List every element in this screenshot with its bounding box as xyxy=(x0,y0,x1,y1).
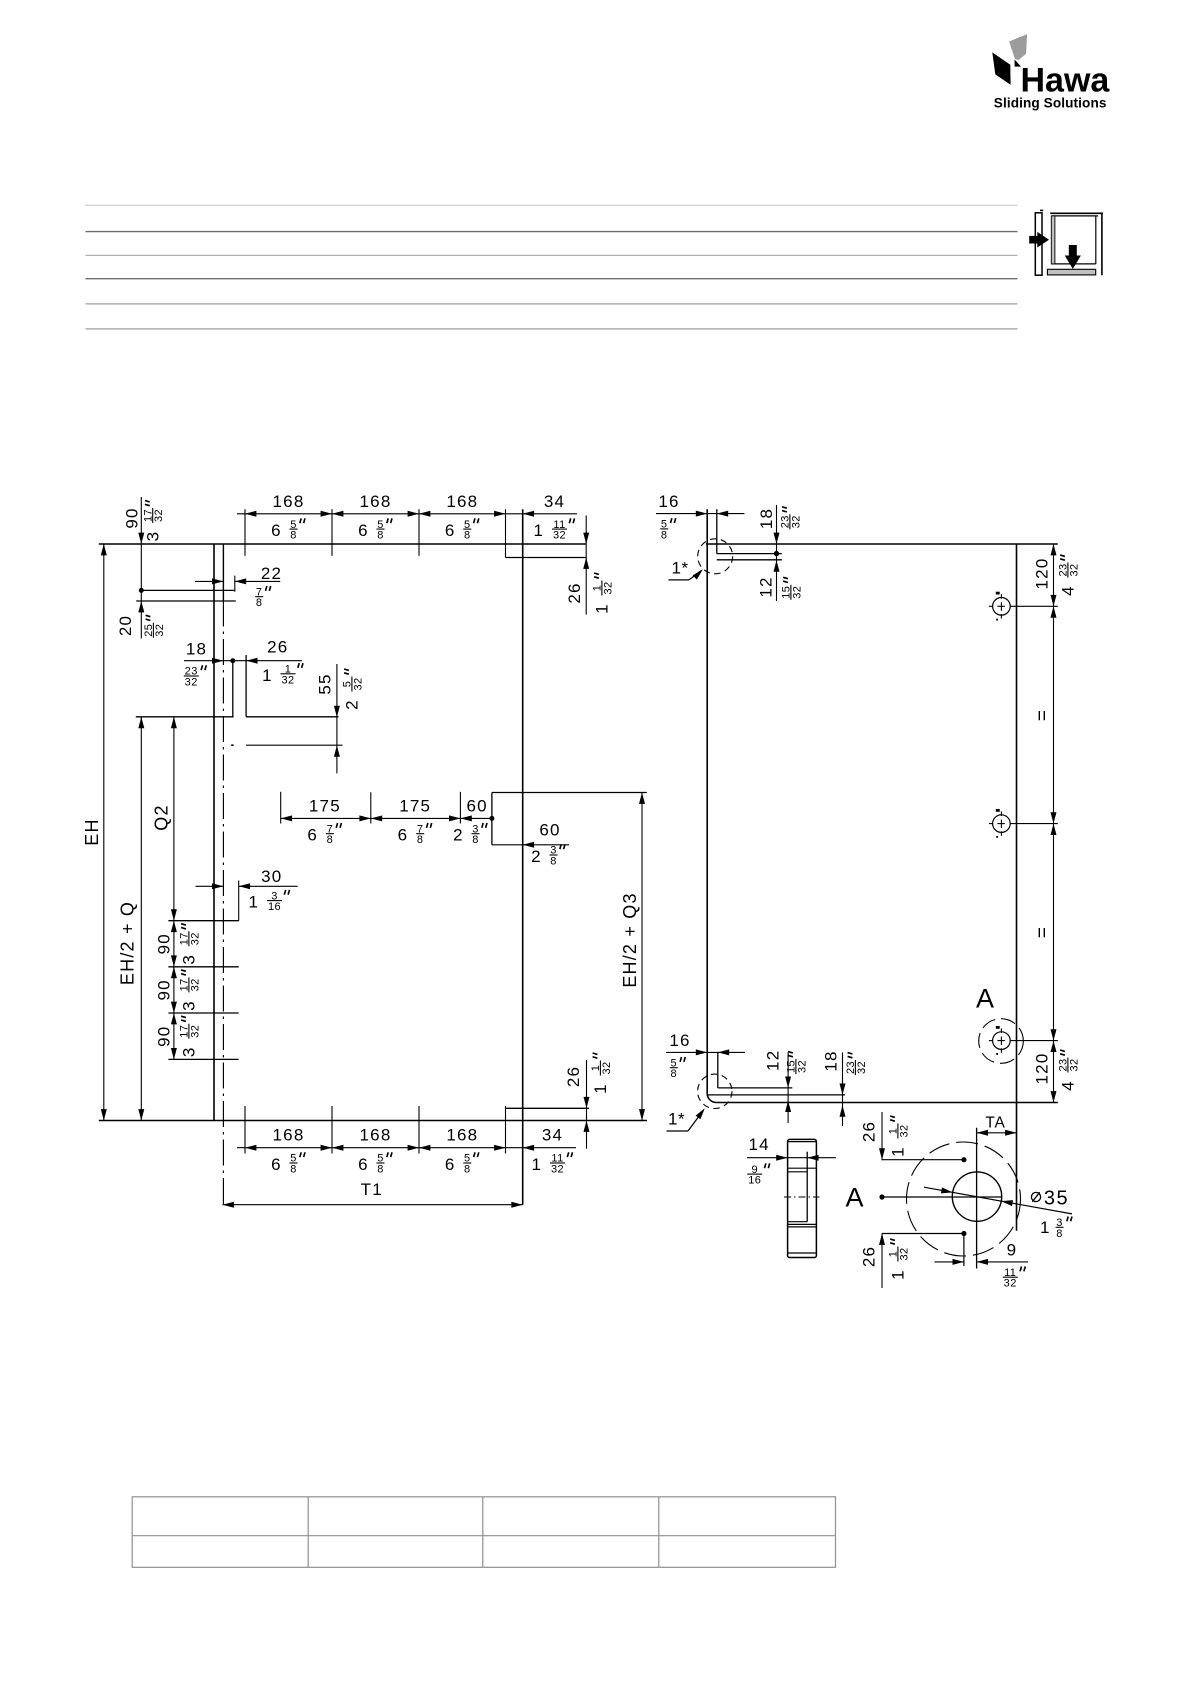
svg-text:1: 1 xyxy=(533,521,542,540)
profile outer body xyxy=(788,1139,817,1257)
svg-text:18: 18 xyxy=(186,639,207,658)
header rule line 6 xyxy=(86,328,1018,330)
svg-text:34: 34 xyxy=(542,1126,563,1145)
svg-text:32: 32 xyxy=(796,1060,808,1073)
dim 60 notch xyxy=(523,821,565,868)
header rule line 5 xyxy=(86,303,1018,305)
left bottom dim line xyxy=(237,1147,576,1149)
svg-text:32: 32 xyxy=(790,515,802,528)
svg-text:8: 8 xyxy=(327,834,334,846)
svg-text:32: 32 xyxy=(601,1061,613,1074)
svg-text:90: 90 xyxy=(155,979,174,1000)
left bottom dim ticks xyxy=(245,1106,506,1154)
dim 16 top xyxy=(656,492,745,541)
svg-text:168: 168 xyxy=(446,492,478,511)
hinge hole 1 xyxy=(989,592,1058,621)
svg-text:32: 32 xyxy=(1068,1058,1080,1071)
icon door leaf xyxy=(1035,210,1043,275)
dim 14 xyxy=(747,1135,836,1186)
svg-text:8: 8 xyxy=(671,1068,678,1080)
svg-text:32: 32 xyxy=(898,1247,910,1260)
svg-text:6: 6 xyxy=(358,521,367,540)
dim 168 bottom 3 xyxy=(445,1126,479,1176)
top corner inner edge xyxy=(716,509,718,553)
svg-text:120: 120 xyxy=(1033,1053,1052,1085)
svg-text:6: 6 xyxy=(358,1155,367,1174)
header rule line 2 xyxy=(86,231,1018,233)
svg-text:55: 55 xyxy=(316,673,335,694)
label 1* top xyxy=(669,559,705,580)
dim 20 top-left xyxy=(116,601,166,638)
left panel bottom edge xyxy=(99,1120,647,1122)
svg-text:168: 168 xyxy=(360,1126,392,1145)
profile hline 2 xyxy=(788,1171,808,1173)
profile line bottom-right xyxy=(506,1107,590,1109)
dim 12 top xyxy=(757,560,804,600)
screw line 2 xyxy=(168,1012,238,1014)
svg-text:6: 6 xyxy=(271,521,280,540)
logo wordmark Hawa xyxy=(1021,62,1111,100)
svg-text:8: 8 xyxy=(464,1164,471,1176)
svg-text:3: 3 xyxy=(180,955,199,964)
track line bottom 2 xyxy=(708,1094,846,1096)
svg-text:32: 32 xyxy=(1004,1278,1017,1290)
svg-text:1: 1 xyxy=(889,1147,908,1156)
dim 90 top-left xyxy=(123,497,166,639)
svg-text:90: 90 xyxy=(123,507,142,528)
left panel top edge xyxy=(99,543,586,545)
dim 18 top xyxy=(757,505,803,601)
svg-text:2: 2 xyxy=(531,847,540,866)
dim 168 bottom 2 xyxy=(358,1126,392,1176)
dim 26 top-right xyxy=(565,516,614,615)
svg-text:22: 22 xyxy=(261,564,282,583)
svg-text:16: 16 xyxy=(658,492,679,511)
svg-text:32: 32 xyxy=(281,674,294,686)
svg-text:2: 2 xyxy=(453,826,462,845)
dim EH xyxy=(82,544,107,1121)
icon gray side strip xyxy=(1051,216,1055,264)
bottom corner inner edge xyxy=(717,1052,719,1088)
svg-text:6: 6 xyxy=(445,1155,454,1174)
logo black flag xyxy=(992,52,1021,84)
svg-text:1: 1 xyxy=(248,893,257,912)
junction dot 90/20 xyxy=(139,588,144,593)
svg-text:A: A xyxy=(845,1183,863,1213)
svg-text:175: 175 xyxy=(309,796,341,815)
svg-text:168: 168 xyxy=(273,492,305,511)
dim 30 xyxy=(196,867,298,921)
svg-text:8: 8 xyxy=(377,1164,384,1176)
svg-text:34: 34 xyxy=(544,492,565,511)
svg-text:6: 6 xyxy=(307,826,316,845)
dim 168 top 3 xyxy=(445,492,479,542)
svg-text:EH: EH xyxy=(82,818,102,845)
profile hline 6 xyxy=(788,1252,817,1254)
screw line 1 xyxy=(168,966,238,968)
svg-text:1: 1 xyxy=(593,604,612,613)
svg-text:1: 1 xyxy=(262,666,271,685)
svg-text:32: 32 xyxy=(154,624,166,637)
dim 90 b xyxy=(155,970,202,1011)
svg-text:32: 32 xyxy=(189,932,201,945)
hanger bolt slot verticals xyxy=(233,655,246,717)
svg-text:8: 8 xyxy=(472,834,479,846)
dim 9 xyxy=(935,1240,1029,1289)
svg-text:35: 35 xyxy=(1044,1187,1069,1209)
svg-text:30: 30 xyxy=(261,867,282,886)
svg-text:8: 8 xyxy=(1056,1228,1062,1240)
dim 18-26 xyxy=(184,637,303,688)
svg-text:3: 3 xyxy=(180,1001,199,1010)
svg-text:16: 16 xyxy=(268,901,281,913)
track line lower xyxy=(717,559,782,561)
svg-text:1: 1 xyxy=(889,1270,908,1279)
svg-text:A: A xyxy=(976,984,994,1014)
leader D35 xyxy=(924,1187,1072,1214)
svg-text:Sliding Solutions: Sliding Solutions xyxy=(994,96,1107,111)
profile hline 1 xyxy=(788,1167,817,1169)
svg-text:8: 8 xyxy=(464,530,471,542)
dim 90 chain arrows xyxy=(171,921,177,1060)
dim 168 bottom 1 xyxy=(271,1126,305,1176)
dim 120 bottom labels xyxy=(1033,1050,1081,1091)
svg-text:168: 168 xyxy=(446,1126,478,1145)
right panel right edge xyxy=(1016,544,1018,1231)
svg-text:1: 1 xyxy=(1040,1218,1049,1237)
svg-text:12: 12 xyxy=(763,1050,782,1071)
dim 12 bottom xyxy=(763,1050,808,1123)
left top dim line xyxy=(237,513,577,515)
detail circle at hinge 3 xyxy=(979,1019,1024,1064)
svg-text:90: 90 xyxy=(155,1026,174,1047)
svg-text:32: 32 xyxy=(189,1025,201,1038)
svg-text:1: 1 xyxy=(591,1084,610,1093)
dim 34 top xyxy=(533,492,574,542)
svg-text:14: 14 xyxy=(749,1135,770,1154)
svg-text:8: 8 xyxy=(550,856,557,868)
equal mark 1 xyxy=(1033,709,1054,721)
left top dim ticks xyxy=(245,509,506,557)
dim 55 xyxy=(316,664,365,773)
svg-text:32: 32 xyxy=(352,677,364,690)
profile centerline xyxy=(784,1196,820,1198)
detail circle 1* bottom xyxy=(698,1074,732,1108)
svg-text:32: 32 xyxy=(791,586,803,599)
profile hline 5 xyxy=(788,1226,817,1228)
svg-text:=: = xyxy=(1033,926,1054,938)
dim 18 bottom xyxy=(822,1050,868,1126)
icon gray bottom bar xyxy=(1047,269,1095,275)
track line bottom 1 xyxy=(718,1087,793,1089)
svg-text:EH/2 + Q: EH/2 + Q xyxy=(118,901,138,985)
svg-text:26: 26 xyxy=(564,1066,583,1087)
svg-text:8: 8 xyxy=(377,530,384,542)
dim TA xyxy=(977,1114,1017,1136)
svg-text:16: 16 xyxy=(748,1175,761,1187)
svg-text:Hawa: Hawa xyxy=(1021,62,1111,100)
profile line top-right xyxy=(506,557,587,559)
hole D35 xyxy=(952,1172,1001,1221)
svg-text:12: 12 xyxy=(757,576,776,597)
svg-text:Q2: Q2 xyxy=(152,804,172,830)
svg-text:6: 6 xyxy=(398,826,407,845)
profile bottom reference line xyxy=(136,716,339,718)
svg-text:4: 4 xyxy=(1059,1081,1078,1090)
screw line 0 xyxy=(168,920,238,922)
svg-text:8: 8 xyxy=(256,597,263,609)
dim 168 top 2 xyxy=(358,492,392,542)
dim 175-175-60 xyxy=(281,792,495,846)
icon arrow down xyxy=(1065,245,1081,269)
dim 34 bottom xyxy=(531,1126,572,1176)
logo tagline Sliding Solutions xyxy=(994,96,1107,111)
svg-text:32: 32 xyxy=(553,530,566,542)
svg-text:26: 26 xyxy=(565,582,584,603)
dim 26 bottom-right xyxy=(564,1053,613,1149)
svg-text:18: 18 xyxy=(822,1050,841,1071)
left top dim arrows xyxy=(245,511,534,517)
dim Q2 xyxy=(152,717,177,921)
lock notch xyxy=(492,793,647,845)
dim 90 a xyxy=(155,924,202,965)
svg-text:1*: 1* xyxy=(672,559,689,578)
svg-text:32: 32 xyxy=(153,509,165,522)
svg-text:8: 8 xyxy=(661,529,668,541)
dim line 120 chain xyxy=(1053,544,1055,1103)
label A at hinge 3 xyxy=(976,984,994,1014)
header rule line 3 xyxy=(86,254,1018,256)
left panel centerline (dash-dot) xyxy=(222,544,224,1205)
svg-text:TA: TA xyxy=(985,1114,1005,1131)
bolt centerline (dash-dot) xyxy=(231,744,342,746)
dim arrows hinge3 xyxy=(1051,1029,1057,1052)
dim arrows hinge2 xyxy=(1051,812,1057,835)
dim 26 detail top xyxy=(860,1112,967,1162)
bottom table xyxy=(132,1497,835,1568)
svg-text:168: 168 xyxy=(273,1126,305,1145)
label D35 xyxy=(1031,1187,1072,1240)
svg-text:26: 26 xyxy=(267,637,288,656)
svg-text:90: 90 xyxy=(155,933,174,954)
left bottom dim arrows xyxy=(245,1145,534,1151)
hinge hole 3 (A) xyxy=(989,1026,1058,1055)
detail circle 1* top xyxy=(698,539,733,574)
svg-text:EH/2 + Q3: EH/2 + Q3 xyxy=(620,892,640,987)
profile line B left xyxy=(136,600,236,602)
svg-text:26: 26 xyxy=(860,1246,879,1267)
svg-text:18: 18 xyxy=(757,508,776,529)
svg-text:16: 16 xyxy=(669,1031,690,1050)
section line A-A xyxy=(879,1194,1001,1199)
svg-text:175: 175 xyxy=(399,796,431,815)
dim T1 xyxy=(223,1180,523,1208)
svg-text:3: 3 xyxy=(180,1048,199,1057)
svg-text:1: 1 xyxy=(531,1155,540,1174)
svg-text:32: 32 xyxy=(189,978,201,991)
svg-text:8: 8 xyxy=(417,834,424,846)
logo gray flag xyxy=(1009,34,1027,60)
svg-text:=: = xyxy=(1033,709,1054,721)
svg-text:3: 3 xyxy=(143,532,162,541)
detail A vertical centerline xyxy=(976,1128,978,1269)
dim 168 top 1 xyxy=(271,492,305,542)
svg-text:32: 32 xyxy=(185,677,198,689)
svg-text:4: 4 xyxy=(1059,586,1078,595)
screw line 3 xyxy=(168,1058,238,1060)
dim 120 top labels xyxy=(1033,555,1081,596)
icon arrow right xyxy=(1029,232,1049,248)
profile inner step xyxy=(806,1152,808,1222)
track line with bolt dot xyxy=(717,551,782,556)
svg-text:32: 32 xyxy=(602,581,614,594)
left panel left edge xyxy=(213,544,215,1121)
svg-text:32: 32 xyxy=(856,1061,868,1074)
svg-text:32: 32 xyxy=(1068,563,1080,576)
right panel top edge xyxy=(706,543,1058,545)
svg-text:26: 26 xyxy=(860,1121,879,1142)
svg-text:6: 6 xyxy=(271,1155,280,1174)
profile hline 4 xyxy=(788,1223,817,1225)
dim 120 top arrows xyxy=(1051,544,1057,618)
dim EH/2+Q3 xyxy=(620,793,645,1121)
svg-text:1*: 1* xyxy=(668,1110,685,1129)
svg-text:8: 8 xyxy=(290,1164,297,1176)
header rule line 1 xyxy=(86,204,1018,206)
svg-text:32: 32 xyxy=(898,1124,910,1137)
svg-text:60: 60 xyxy=(539,821,560,840)
left panel right edge xyxy=(522,509,524,1204)
label 1* bottom xyxy=(667,1107,708,1131)
hinge hole 2 xyxy=(989,809,1058,838)
svg-text:60: 60 xyxy=(467,796,488,815)
right panel bottom edge xyxy=(716,1102,1058,1104)
svg-text:T1: T1 xyxy=(361,1180,383,1199)
svg-text:2: 2 xyxy=(343,700,362,709)
dim 16 bottom xyxy=(666,1031,745,1080)
header rule line 4 xyxy=(86,278,1018,280)
icon cabinet frame xyxy=(1050,213,1103,275)
dim 120 bottom arrow xyxy=(1051,1091,1057,1102)
dim 22 xyxy=(195,564,282,609)
svg-text:32: 32 xyxy=(551,1164,564,1176)
detail A boundary circle xyxy=(907,1142,1021,1256)
dim EH/2+Q xyxy=(118,717,145,1121)
dim 26 detail bottom xyxy=(860,1231,967,1288)
right panel left edge xyxy=(707,509,716,1102)
svg-text:9: 9 xyxy=(1007,1240,1018,1259)
svg-text:8: 8 xyxy=(290,530,297,542)
label A left xyxy=(845,1183,863,1213)
profile line A left xyxy=(141,589,235,591)
svg-text:168: 168 xyxy=(360,492,392,511)
svg-text:6: 6 xyxy=(445,521,454,540)
profile hline 3 xyxy=(788,1221,808,1223)
equal mark 2 xyxy=(1033,926,1054,938)
dim 90 c xyxy=(155,1016,202,1057)
svg-text:120: 120 xyxy=(1033,558,1052,590)
svg-text:20: 20 xyxy=(116,615,135,636)
